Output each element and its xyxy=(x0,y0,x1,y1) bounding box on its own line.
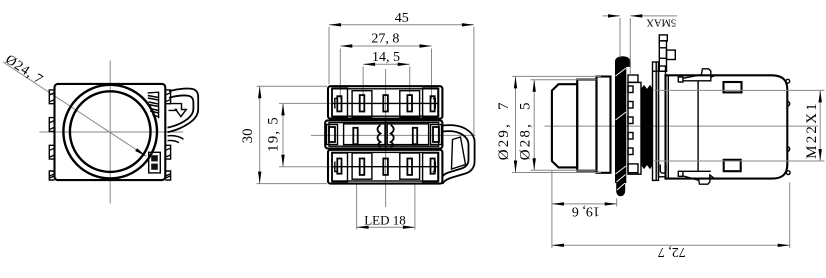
svg-text:Ø29, 7: Ø29, 7 xyxy=(496,100,512,160)
svg-text:19, 5: 19, 5 xyxy=(265,116,281,152)
svg-text:LED 18: LED 18 xyxy=(364,213,406,228)
svg-text:45: 45 xyxy=(395,11,409,26)
svg-text:30: 30 xyxy=(240,128,256,143)
svg-text:27, 8: 27, 8 xyxy=(371,32,399,47)
svg-text:M22X1: M22X1 xyxy=(804,101,820,159)
svg-text:5MAX: 5MAX xyxy=(646,17,676,28)
svg-text:Ø28, 5: Ø28, 5 xyxy=(518,100,534,160)
svg-text:72, 7: 72, 7 xyxy=(658,244,686,259)
svg-text:19, 6: 19, 6 xyxy=(572,204,600,219)
svg-text:14, 5: 14, 5 xyxy=(372,50,400,65)
